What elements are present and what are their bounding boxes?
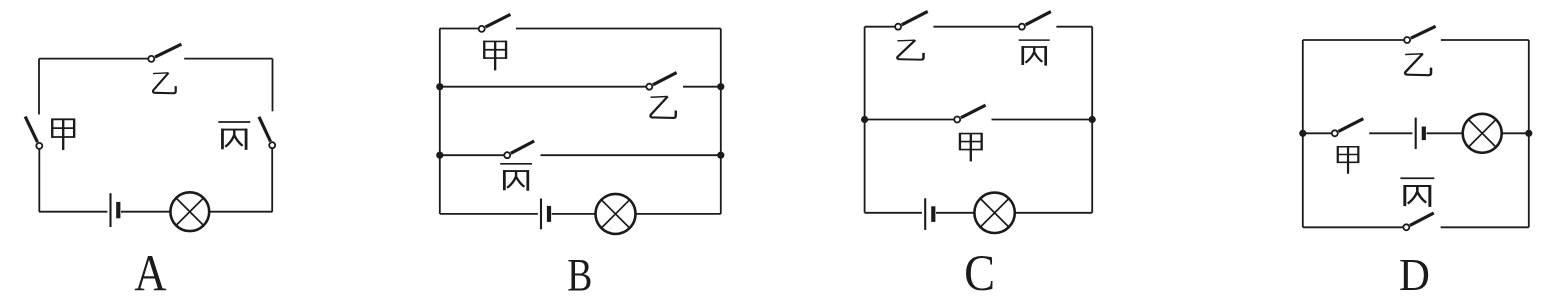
svg-text:C: C <box>964 245 995 301</box>
wire A right lower segment <box>271 149 273 212</box>
svg-text:A: A <box>134 245 166 301</box>
switch 乙 S-top (diagram A) <box>148 44 181 62</box>
circuit diagram B <box>436 14 724 301</box>
wire B middle rail 2 right <box>541 154 721 156</box>
wire B middle rail 2 left <box>440 154 504 156</box>
junction C mid left <box>861 116 868 123</box>
battery BT (diagram D) <box>1416 118 1424 149</box>
wire B right vertical <box>720 29 722 214</box>
lamp L (diagram C) <box>974 193 1014 233</box>
switch 丙 S-top-right (diagram C) <box>1019 12 1051 30</box>
wire C battery-to-lamp <box>936 212 975 214</box>
label 丙 (diagram B) <box>500 164 532 191</box>
wire A left upper segment <box>38 59 40 115</box>
switch 甲 S-mid (diagram C) <box>954 105 985 122</box>
circuit diagram C <box>861 11 1096 301</box>
switch 乙 S-top-left (diagram C) <box>895 11 928 29</box>
wire B middle rail 1 right <box>683 86 721 88</box>
label 甲 (diagram A) <box>52 118 75 150</box>
wire C bottom rail right <box>1015 212 1092 214</box>
wire C top rail right <box>1056 26 1092 28</box>
label 丙 (diagram D) <box>1400 178 1434 207</box>
wire D middle rail seg4 <box>1502 132 1529 134</box>
junction D mid left <box>1299 130 1306 137</box>
label 丙 (diagram C) <box>1019 40 1050 65</box>
wire A top-left segment <box>39 58 148 60</box>
circuit diagram D <box>1299 26 1532 300</box>
svg-text:D: D <box>1399 248 1430 300</box>
wire D middle rail seg2 <box>1369 132 1412 134</box>
wire A right upper segment <box>272 59 274 112</box>
label 甲 (diagram B) <box>484 41 507 71</box>
wire A bottom-right segment <box>210 211 273 213</box>
wire D middle rail seg1 <box>1303 132 1331 134</box>
wire D top rail left <box>1303 39 1404 41</box>
wire B left vertical <box>439 29 441 214</box>
junction B rail1 right <box>717 83 724 90</box>
wire D top rail right <box>1441 39 1529 41</box>
wire B top rail left <box>440 28 478 30</box>
switch 乙 S-mid (diagram B) <box>646 73 676 90</box>
wire B top rail right <box>516 28 721 30</box>
label 乙 (diagram C) <box>897 40 923 60</box>
lamp L (diagram A) <box>170 192 209 231</box>
wire A left lower segment <box>38 150 40 212</box>
label 乙 (diagram B) <box>651 96 676 117</box>
wire C bottom rail left <box>865 212 922 214</box>
wire D left vertical <box>1302 40 1304 227</box>
label 甲 (diagram C) <box>959 133 982 162</box>
label 甲 (diagram D) <box>1337 146 1359 174</box>
battery BT (diagram B) <box>541 199 549 230</box>
switch 甲 S-top (diagram B) <box>479 14 511 32</box>
switch 甲 S-left (diagram A) <box>25 117 42 149</box>
switch 丙 S-right (diagram A) <box>259 117 275 148</box>
wire D bottom rail right <box>1441 226 1529 228</box>
battery BT (diagram C) <box>925 198 933 230</box>
wire A bottom-left segment <box>39 211 107 213</box>
svg-text:B: B <box>567 250 592 301</box>
lamp L (diagram D) <box>1463 114 1502 153</box>
wire C middle rail left <box>865 119 954 121</box>
switch 丙 S-bottom (diagram D) <box>1403 213 1434 230</box>
wire C top rail left <box>865 26 895 28</box>
wire D bottom rail left <box>1303 226 1403 228</box>
wire A battery-to-lamp segment <box>121 211 170 213</box>
wire C top rail middle <box>933 26 1018 28</box>
label 丙 (diagram A) <box>218 122 250 150</box>
wire C left vertical <box>864 27 866 213</box>
circuit diagram A <box>25 44 275 301</box>
junction B rail2 left <box>436 152 443 159</box>
label 乙 (diagram D) <box>1405 54 1431 75</box>
wire B bottom rail right <box>636 213 721 215</box>
junction B rail2 right <box>717 152 724 159</box>
wire D right vertical <box>1528 40 1530 227</box>
wire A top-right segment <box>184 58 272 60</box>
wire C right vertical <box>1091 27 1093 213</box>
wire C middle rail right <box>992 119 1093 121</box>
switch 甲 S-mid (diagram D) <box>1332 119 1364 137</box>
wire B battery-to-lamp <box>552 213 596 215</box>
battery BT (diagram A) <box>111 193 119 227</box>
junction B rail1 left <box>436 83 443 90</box>
junction C mid right <box>1089 116 1096 123</box>
wire B bottom rail left <box>440 213 538 215</box>
label 乙 (diagram A) <box>153 73 176 93</box>
switch 乙 S-top (diagram D) <box>1404 26 1436 43</box>
wire D middle rail seg3 <box>1427 132 1463 134</box>
lamp L (diagram B) <box>596 194 636 234</box>
junction D mid right <box>1525 130 1532 137</box>
switch 丙 S-mid2 (diagram B) <box>504 141 534 158</box>
wire B middle rail 1 left <box>440 86 646 88</box>
